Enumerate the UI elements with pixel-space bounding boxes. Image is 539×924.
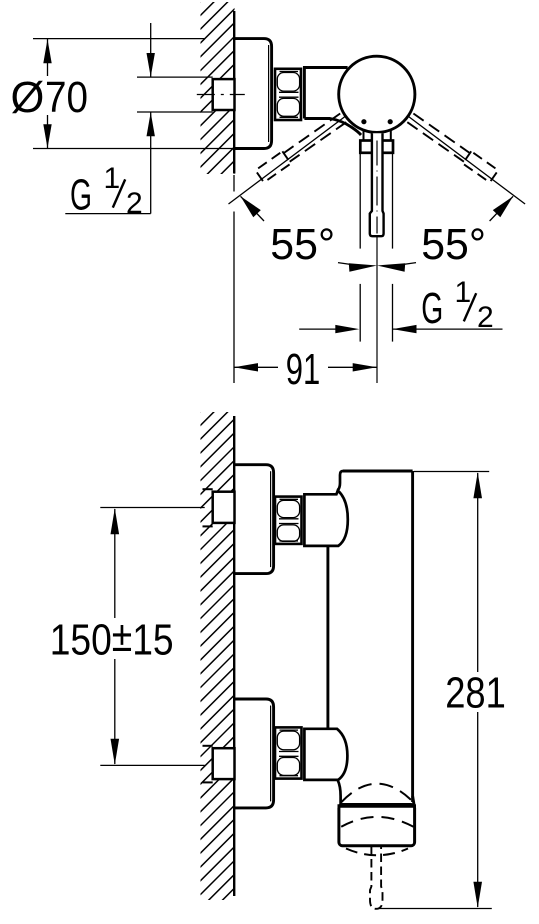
wall face line (top view) [233, 11, 235, 174]
faucet body (bottom view) [343, 470, 413, 473]
lever shaft (top view) [370, 133, 384, 236]
cartridge housing circle (top view) [339, 56, 415, 132]
svg-text:G: G [421, 285, 443, 333]
dashed rotated lever grip (R) [463, 151, 499, 182]
dimension Ø70: extension lines [33, 38, 205, 40]
hex nut (upper) [275, 497, 302, 544]
55-degree vertex arrows at lever centerline [338, 263, 352, 265]
G1/2 threaded tail (upper) [213, 492, 235, 523]
G1/2 threaded tail (top view) [213, 79, 235, 110]
svg-text:55°: 55° [421, 221, 486, 269]
G1/2 threaded tail (lower) [213, 748, 235, 779]
S-union bulge (lower) [304, 729, 347, 780]
svg-text:55°: 55° [270, 221, 335, 269]
55-degree swing line (L) [229, 116, 346, 204]
supply pipe lines (top view) [137, 76, 213, 78]
outlet elbow below lower union [338, 780, 341, 804]
hidden arc inside outlet cup [341, 817, 413, 827]
dimension 91 [234, 366, 278, 368]
escutcheon lip (upper) [270, 471, 272, 567]
svg-text:1: 1 [104, 162, 121, 195]
lever centerline [376, 141, 378, 233]
svg-text:G: G [70, 171, 92, 219]
faucet body (top view) [304, 68, 347, 119]
55-degree arrowhead (R) [493, 196, 513, 217]
supply pipe stubs (upper) [203, 488, 213, 490]
hex nut (top view) [275, 69, 301, 120]
outlet edge extension lines below collar [359, 153, 361, 249]
escutcheon lip (top view) [268, 45, 270, 142]
escutcheon flange (upper) [235, 465, 274, 574]
svg-text:2: 2 [477, 301, 494, 334]
supply pipe stubs (lower) [203, 745, 213, 747]
body top-left step [338, 471, 343, 491]
dashed rotated lever shaft (R) [413, 114, 470, 154]
55-degree arrowhead (L) [241, 196, 261, 217]
svg-text:281: 281 [445, 670, 506, 718]
lever neck (top view) [363, 131, 365, 141]
svg-text:1: 1 [455, 276, 472, 309]
svg-text:91: 91 [286, 346, 321, 394]
dimension 150±15: dimension line + arrows [114, 509, 116, 618]
lever collar (top view) [360, 141, 393, 153]
hose nipple (hidden/dashed) [370, 846, 383, 909]
dimension 281: extension lines [414, 471, 489, 473]
outlet cup [339, 805, 415, 846]
svg-text:2: 2 [126, 187, 143, 220]
dashed rotated lever grip (L) [255, 151, 291, 182]
dimension 150±15: extension lines [100, 507, 204, 509]
dimension 281: dimension line + arrows [477, 473, 479, 672]
dimension G1/2 supply: label with underline [65, 213, 150, 215]
escutcheon lip (lower) [270, 706, 272, 802]
escutcheon flange (lower) [235, 699, 274, 808]
wall face extension line down to 91 dimension [233, 175, 235, 192]
screw dots on housing [361, 119, 366, 124]
dimension G1/2 outlet (top view right) [299, 328, 352, 330]
S-union bulge (upper) [304, 491, 347, 546]
escutcheon flange (top view) [235, 39, 272, 149]
dashed rotated lever shaft (L) [284, 114, 341, 154]
dimension G1/2 supply: arrows [150, 23, 152, 77]
dimension Ø70: dimension line + arrows [47, 39, 49, 76]
svg-text:150±15: 150±15 [50, 613, 174, 665]
svg-text:Ø: Ø [11, 74, 45, 122]
pipe centerline (top view) [197, 94, 245, 96]
hidden dome arc above outlet cup [341, 784, 413, 803]
hex nut (lower) [275, 727, 302, 778]
hidden bottom ellipse of outlet cup [346, 849, 408, 856]
55-degree swing line (R) [408, 116, 525, 204]
svg-text:70: 70 [45, 74, 88, 122]
wall face line (bottom view) [233, 416, 235, 896]
